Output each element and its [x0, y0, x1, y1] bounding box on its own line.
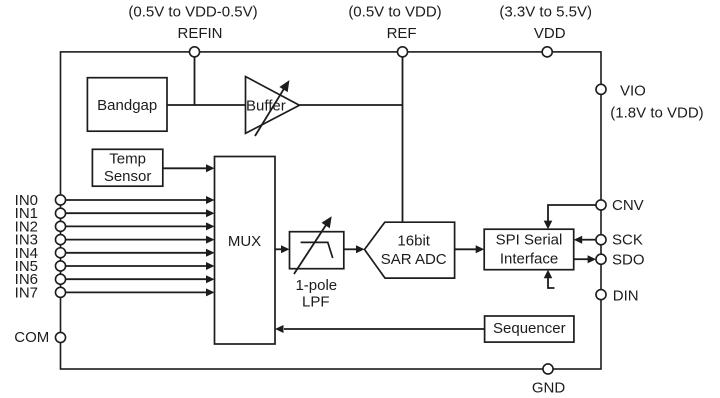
- svg-text:Bandgap: Bandgap: [97, 97, 157, 114]
- svg-text:VDD: VDD: [534, 25, 566, 42]
- filter 1-pole LPF: [290, 216, 344, 310]
- wire SAR ADC to SPI: [455, 245, 485, 253]
- wire SPI to SDO: [574, 255, 596, 263]
- block Bandgap: [87, 78, 167, 132]
- terminal COM: [55, 332, 65, 342]
- terminal VDD: [542, 47, 552, 57]
- svg-text:1-pole: 1-pole: [295, 277, 337, 294]
- op-amp Buffer: [246, 77, 300, 137]
- wire REF stem to SAR ADC: [402, 52, 404, 222]
- wire SPI bottom stem with tick: [544, 270, 555, 288]
- svg-text:Temp: Temp: [109, 151, 146, 168]
- block Sequencer: [485, 316, 574, 342]
- wire Buffer output to REF stem: [299, 104, 402, 106]
- svg-text:(0.5V to VDD-0.5V): (0.5V to VDD-0.5V): [128, 4, 257, 21]
- chip outer border: [61, 52, 602, 369]
- terminal SDO: [596, 254, 606, 264]
- block MUX: [215, 157, 276, 345]
- svg-text:Interface: Interface: [500, 250, 558, 267]
- svg-text:LPF: LPF: [302, 293, 330, 310]
- terminals IN0-IN7: [55, 195, 65, 298]
- wire MUX to LPF: [275, 245, 290, 253]
- terminal REFIN: [189, 47, 199, 57]
- terminal REF: [397, 47, 407, 57]
- wire Bandgap to Buffer: [167, 104, 246, 106]
- wires IN0-IN7 to MUX: [66, 200, 208, 292]
- svg-text:Sensor: Sensor: [104, 168, 152, 185]
- wire REFIN stem: [194, 52, 196, 105]
- svg-text:GND: GND: [532, 380, 566, 397]
- svg-text:COM: COM: [14, 329, 49, 346]
- block SPI Serial Interface: [484, 229, 574, 270]
- terminal SCK: [596, 235, 606, 245]
- svg-text:SPI Serial: SPI Serial: [496, 232, 563, 249]
- wire Sequencer to MUX: [275, 325, 485, 333]
- terminal DIN: [596, 290, 606, 300]
- svg-text:SDO: SDO: [612, 251, 645, 268]
- svg-text:Buffer: Buffer: [246, 98, 286, 115]
- svg-text:(3.3V to 5.5V): (3.3V to 5.5V): [499, 4, 592, 21]
- svg-text:MUX: MUX: [228, 233, 261, 250]
- svg-text:16bit: 16bit: [397, 232, 430, 249]
- svg-text:SCK: SCK: [612, 232, 643, 249]
- svg-text:(1.8V to VDD): (1.8V to VDD): [610, 105, 703, 122]
- svg-text:VIO: VIO: [620, 82, 646, 99]
- terminal GND: [543, 364, 553, 374]
- adc 16bit SAR ADC: [365, 222, 455, 278]
- wire LPF to SAR ADC: [344, 245, 365, 253]
- labels IN0-IN7: [15, 192, 38, 301]
- wire CNV to SPI: [544, 205, 596, 229]
- svg-text:REFIN: REFIN: [178, 25, 223, 42]
- svg-text:REF: REF: [387, 25, 417, 42]
- wire Temp Sensor to MUX: [163, 164, 215, 172]
- terminal CNV: [596, 200, 606, 210]
- wire SCK to SPI: [574, 236, 596, 244]
- terminal VIO: [596, 84, 606, 94]
- svg-text:DIN: DIN: [613, 287, 639, 304]
- svg-text:(0.5V to VDD): (0.5V to VDD): [348, 4, 441, 21]
- svg-text:IN7: IN7: [15, 284, 38, 301]
- svg-text:Sequencer: Sequencer: [493, 320, 566, 337]
- svg-text:CNV: CNV: [612, 197, 644, 214]
- block Temp Sensor: [92, 149, 162, 186]
- svg-text:SAR ADC: SAR ADC: [381, 251, 447, 268]
